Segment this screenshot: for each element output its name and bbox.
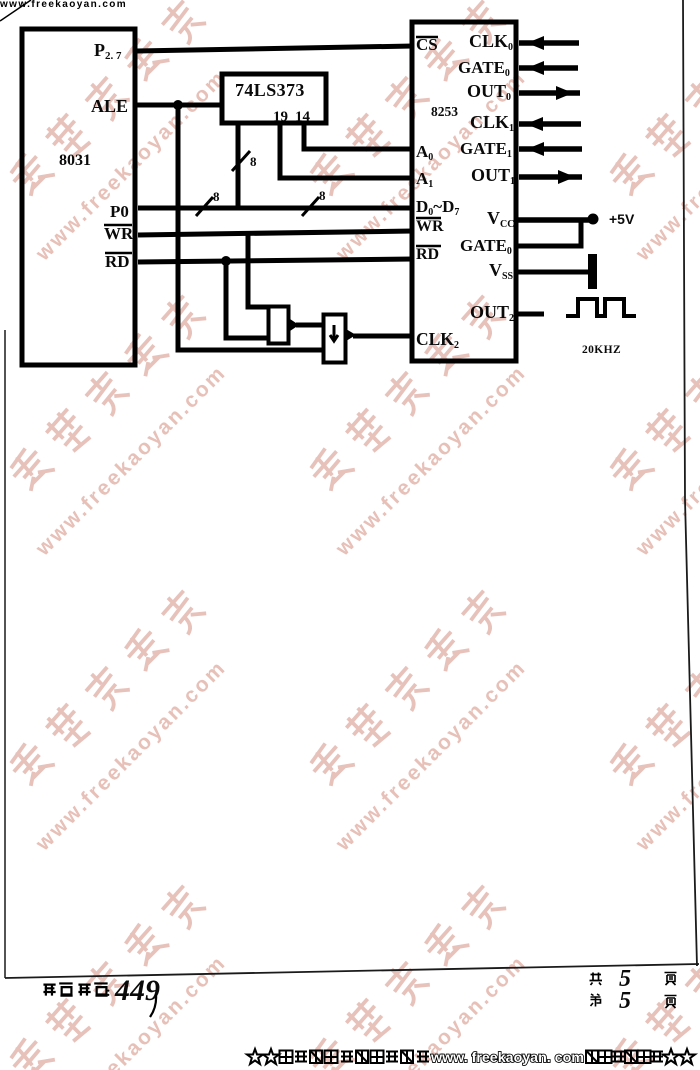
svg-text:www.freekaoyan.com: www.freekaoyan.com	[331, 656, 531, 856]
WR overline	[104, 224, 132, 227]
wire ALE vertical down	[178, 105, 323, 350]
right page border	[683, 0, 697, 966]
svg-text:www.freekaoyan.com: www.freekaoyan.com	[31, 951, 231, 1070]
svg-text:8031: 8031	[59, 152, 91, 169]
waveform 20KHZ	[566, 299, 636, 316]
wire ALE	[136, 103, 222, 108]
gate U2 inner down-arrow symbol	[330, 325, 338, 341]
svg-text:8253: 8253	[431, 104, 458, 119]
wire latch pin19 to A1	[280, 123, 413, 178]
svg-text:D0~D7: D0~D7	[416, 197, 459, 218]
wire U2 to CLK2	[353, 334, 413, 339]
svg-text:20KHZ: 20KHZ	[582, 344, 621, 356]
page count row 2	[591, 994, 601, 1007]
IC 8031	[22, 29, 135, 365]
left page border	[4, 330, 6, 978]
wire RD branch to gate1	[226, 261, 269, 338]
svg-text:OUT1: OUT1	[471, 165, 515, 187]
CLK1 input arrow	[519, 121, 581, 127]
svg-text:www.freekaoyan.com: www.freekaoyan.com	[31, 361, 231, 561]
svg-text:A0: A0	[416, 142, 433, 163]
svg-text:RD: RD	[105, 252, 130, 271]
exam number label (fake hanzi)	[43, 983, 107, 995]
svg-text:74LS373: 74LS373	[235, 80, 305, 100]
node VCC dot	[588, 214, 599, 225]
svg-text:WR: WR	[104, 224, 134, 243]
svg-text:8: 8	[213, 189, 220, 204]
svg-text:www. freekaoyan. com: www. freekaoyan. com	[430, 1049, 584, 1065]
svg-text:P0: P0	[110, 202, 129, 221]
svg-text:WR: WR	[416, 218, 444, 235]
latch 74LS373	[222, 74, 326, 123]
svg-text:VSS: VSS	[489, 260, 514, 282]
wire latch pin14 to A0	[304, 123, 413, 149]
svg-text:GATE0: GATE0	[460, 236, 512, 257]
OUT1 output arrow	[519, 174, 582, 180]
svg-text:19: 19	[273, 109, 288, 125]
svg-text:RD: RD	[416, 246, 439, 263]
node RD junction	[221, 256, 231, 266]
svg-text:449: 449	[114, 974, 160, 1007]
wire U1 to U2	[296, 323, 324, 328]
RD overline	[105, 252, 132, 255]
svg-text:CLK1: CLK1	[470, 112, 514, 134]
OUT0 output arrow	[519, 90, 580, 96]
node ALE junction	[173, 100, 183, 110]
CLK0 input arrow	[519, 40, 579, 46]
corner diagonal	[0, 0, 31, 21]
wire RD	[138, 259, 413, 262]
wire P0 data bus	[138, 206, 413, 211]
wire WR	[138, 231, 413, 235]
bus slash 8 right	[302, 197, 319, 216]
bus slash 8 left	[196, 197, 213, 216]
svg-text:8: 8	[250, 154, 257, 169]
wire VSS	[518, 270, 589, 275]
svg-text:+5V: +5V	[609, 211, 635, 227]
svg-text:P2. 7: P2. 7	[94, 40, 122, 62]
page count row 1	[590, 973, 603, 986]
svg-text:GATE0: GATE0	[458, 58, 510, 79]
wire P2.7 to CS	[136, 46, 413, 51]
wire VCC	[518, 217, 590, 223]
ground	[588, 254, 597, 289]
svg-text:CLK0: CLK0	[469, 31, 513, 53]
gate U1	[269, 307, 289, 344]
svg-text:www.freekaoyan.com: www.freekaoyan.com	[31, 656, 231, 856]
svg-text:VCC: VCC	[487, 208, 514, 230]
svg-text:14: 14	[295, 109, 311, 125]
svg-text:8: 8	[319, 188, 326, 203]
wire VCC to GATE2	[518, 220, 581, 246]
svg-text::: :	[106, 985, 111, 1000]
gate U1 output arrow	[290, 319, 299, 331]
wire WR branch to gate1	[248, 233, 269, 307]
svg-text:ALE: ALE	[91, 96, 128, 116]
svg-text:CLK2: CLK2	[416, 329, 459, 351]
svg-text:www.freekaoyan.com: www.freekaoyan.com	[331, 361, 531, 561]
svg-text:5: 5	[619, 988, 631, 1014]
svg-text:GATE1: GATE1	[460, 139, 512, 160]
gate U2	[324, 315, 346, 363]
bus slash 8 (latch)	[232, 151, 250, 171]
wire latch data bus vertical	[236, 123, 241, 210]
svg-text:OUT2: OUT2	[470, 302, 514, 324]
IC 8253	[412, 22, 516, 361]
svg-text:OUT0: OUT0	[467, 81, 511, 103]
GATE1 input arrow	[519, 146, 582, 152]
gate U2 output arrow	[346, 329, 356, 341]
wire OUT2 stub	[518, 312, 544, 317]
GATE0 input arrow	[519, 65, 578, 71]
bottom rule	[5, 964, 699, 978]
